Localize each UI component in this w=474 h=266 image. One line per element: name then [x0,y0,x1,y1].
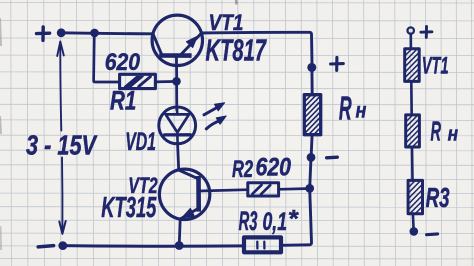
LED VD1 circle [159,107,196,144]
transistor VT1 circle [152,15,202,65]
node dot: output + terminal [307,63,316,72]
VD1 triangle [166,114,189,132]
VT1 collector diagonal [153,34,162,55]
right diagram wire 4 [412,214,415,228]
wire: bottom negative rail [63,244,244,248]
wire: VD1 to VT2 collector [178,144,179,170]
svg-text:KT315: KT315 [101,192,157,224]
resistor R2 hatch [253,185,262,194]
VD1 cathode lead [176,135,179,144]
plus label at Rn top [331,57,344,70]
wire: R2 to junction [279,187,306,190]
VT2 emitter lead down [178,219,182,243]
R3 inner ticks [256,242,258,249]
svg-text:R: R [431,115,442,146]
wire: R1 to base node [155,80,173,83]
wire: top rail right section (emitter to Rn corner) [202,32,312,63]
right diagram: + label [421,27,432,38]
svg-text:VT1: VT1 [209,10,244,35]
node dot: + rail start [57,28,66,37]
VT1 base bar [159,53,191,58]
VT2 base bar (vertical) [196,176,201,212]
node dot: VT2 emitter on - rail [175,241,184,250]
svg-text:R1: R1 [110,86,136,116]
svg-text:VT1: VT1 [422,53,449,80]
wire: top positive rail left section [61,33,152,34]
right diagram wire 1 [409,34,412,49]
right diagram: R3 box [408,180,422,213]
right diagram: - label [427,232,438,236]
right diagram: + open terminal [408,27,414,33]
right diagram: - terminal dot [410,227,419,236]
VT1 base lead down [175,56,178,79]
minus label at Rn bottom [327,156,338,160]
wire: R2 junction to bottom right corner [281,188,311,245]
load resistor Rn box [304,95,320,135]
resistor R1 box [120,74,156,88]
svg-text:н: н [448,123,459,145]
node dot: R2 junction [305,184,314,193]
svg-text:KT817: KT817 [206,34,268,68]
resistor R3 box (thick) [244,237,281,252]
right diagram wire 2 [410,81,413,115]
plus terminal (battery +) [37,27,50,40]
node dot: output - terminal [307,153,316,162]
LED emission arrow 1 [204,108,217,115]
resistor R1 hatch [125,76,144,86]
VT2 emitter with arrow [181,208,198,218]
wire: - node down to R2 junction [310,157,311,188]
svg-text:н: н [356,98,367,123]
wire: Rn bottom to - node [311,135,312,158]
right diagram wire 3 [411,147,414,180]
svg-text:620: 620 [105,49,141,76]
svg-text:R2: R2 [232,156,253,183]
svg-text:R3: R3 [426,182,450,213]
VT1 emitter line with arrow [180,33,201,55]
wire: node to Rn top [310,67,313,94]
svg-text:R3: R3 [239,206,258,236]
VD1 anode lead inside [176,107,179,114]
wire: VT1 base node to LED VD1 [175,84,178,110]
svg-text:VD1: VD1 [125,128,156,156]
node dot: R1 branch junction [90,29,99,38]
VD1 cathode bar [165,133,191,136]
node dot: - rail start [58,241,67,250]
node dot: VT1 base / R1 / VD1 junction [172,77,181,86]
wire: R1 branch from + rail down and right [94,33,120,82]
VT2 collector diagonal [179,170,199,179]
LED emission arrow 2 [206,121,219,129]
right diagram: Rn box [406,115,420,147]
svg-text:0,1: 0,1 [263,208,288,236]
voltage dimension line 3-15V with arrows [57,42,65,234]
minus terminal bottom left [38,246,53,247]
svg-text:R: R [339,90,352,127]
right diagram: VT1 box [405,49,420,82]
svg-text:620: 620 [256,154,292,182]
resistor R2 box [248,183,279,196]
svg-text:3 - 15V: 3 - 15V [26,130,98,161]
wire: VT2 base to R2 [199,190,248,191]
transistor VT2 circle [159,169,209,219]
